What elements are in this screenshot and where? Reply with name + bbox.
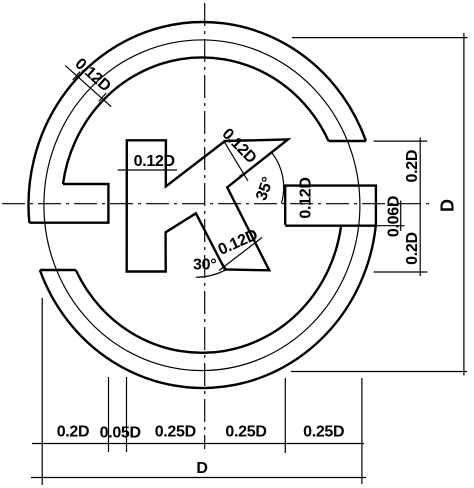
svg-text:0.05D: 0.05D <box>100 424 141 441</box>
svg-text:0.12D: 0.12D <box>297 177 314 218</box>
svg-text:0.2D: 0.2D <box>404 232 421 265</box>
svg-text:30°: 30° <box>193 257 216 274</box>
svg-text:0.25D: 0.25D <box>303 423 344 440</box>
svg-text:0.2D: 0.2D <box>57 423 90 440</box>
svg-text:0.12D: 0.12D <box>134 153 175 170</box>
svg-text:0.06D: 0.06D <box>385 196 402 237</box>
svg-text:0.25D: 0.25D <box>225 423 266 440</box>
svg-text:D: D <box>196 460 207 477</box>
svg-text:0.2D: 0.2D <box>404 150 421 183</box>
svg-text:0.25D: 0.25D <box>155 423 196 440</box>
svg-text:D: D <box>438 199 458 212</box>
